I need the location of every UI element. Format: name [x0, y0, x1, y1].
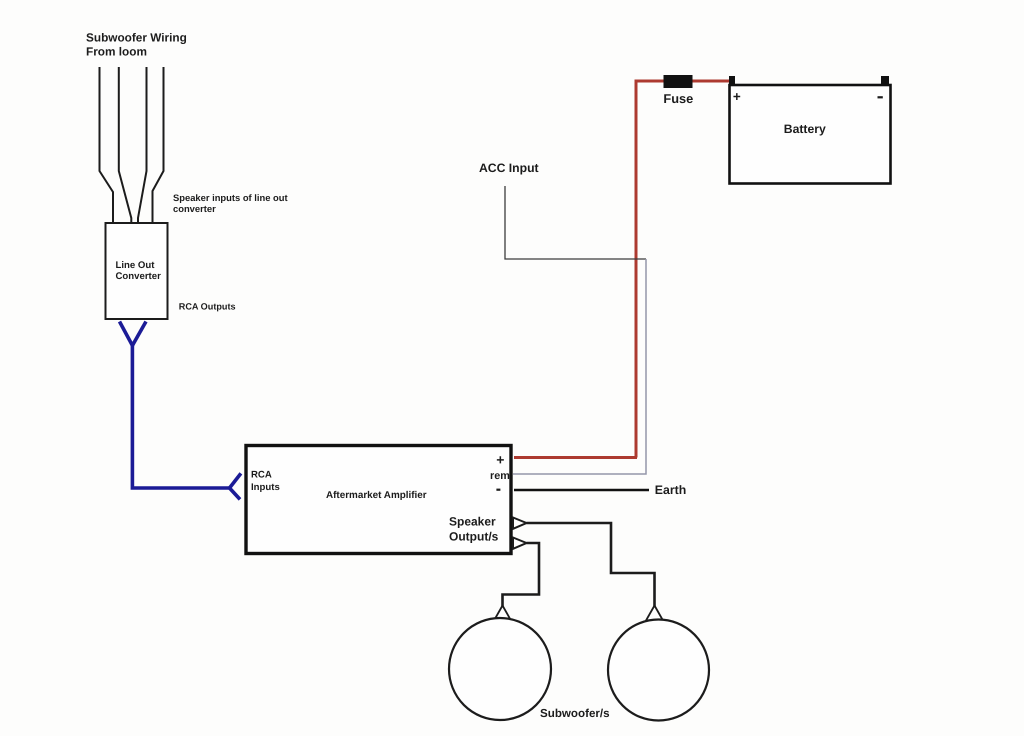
svg-text:converter: converter	[173, 203, 216, 214]
svg-text:Inputs: Inputs	[251, 482, 280, 493]
svg-text:Speaker: Speaker	[449, 514, 496, 528]
svg-text:Fuse: Fuse	[663, 91, 693, 106]
svg-text:From loom: From loom	[86, 45, 147, 59]
svg-text:Speaker inputs of line out: Speaker inputs of line out	[173, 192, 288, 203]
svg-text:RCA: RCA	[251, 469, 272, 480]
svg-text:rem: rem	[490, 470, 510, 482]
svg-text:Battery: Battery	[784, 122, 826, 136]
svg-text:Converter: Converter	[116, 271, 162, 282]
svg-text:+: +	[733, 89, 741, 104]
svg-text:Subwoofer/s: Subwoofer/s	[540, 707, 610, 720]
svg-text:ACC Input: ACC Input	[479, 161, 539, 175]
svg-text:+: +	[496, 452, 504, 468]
svg-text:Earth: Earth	[655, 483, 686, 497]
svg-text:RCA Outputs: RCA Outputs	[179, 302, 236, 312]
svg-text:Subwoofer Wiring: Subwoofer Wiring	[86, 30, 187, 44]
svg-text:Aftermarket Amplifier: Aftermarket Amplifier	[326, 490, 427, 501]
svg-text:Line Out: Line Out	[116, 260, 156, 271]
svg-text:Output/s: Output/s	[449, 529, 499, 543]
